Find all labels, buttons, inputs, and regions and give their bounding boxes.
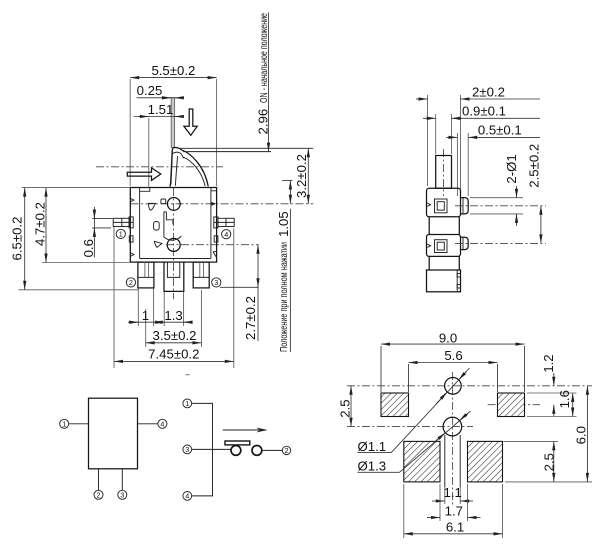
svg-text:1.51: 1.51 <box>148 102 174 117</box>
svg-text:2: 2 <box>97 490 101 499</box>
svg-text:7.45±0.2: 7.45±0.2 <box>148 347 199 362</box>
svg-text:2.5: 2.5 <box>541 453 556 471</box>
svg-text:4: 4 <box>185 492 189 501</box>
svg-text:1: 1 <box>185 399 189 408</box>
svg-text:1.7: 1.7 <box>445 503 463 518</box>
svg-text:2±0.2: 2±0.2 <box>472 84 505 99</box>
svg-text:1.2: 1.2 <box>541 354 556 372</box>
svg-text:3.2±0.2: 3.2±0.2 <box>294 154 309 198</box>
svg-text:1: 1 <box>142 308 149 323</box>
svg-text:1.05: 1.05 <box>276 211 291 237</box>
svg-text:4.7±0.2: 4.7±0.2 <box>33 202 48 246</box>
svg-text:0.5±0.1: 0.5±0.1 <box>478 123 522 138</box>
svg-text:Ø1.3: Ø1.3 <box>358 459 387 474</box>
svg-text:3: 3 <box>214 278 218 287</box>
svg-text:2: 2 <box>129 278 133 287</box>
svg-text:2.5±0.2: 2.5±0.2 <box>527 144 542 188</box>
svg-text:2.96: 2.96 <box>255 109 270 135</box>
svg-text:1: 1 <box>119 230 123 239</box>
svg-text:Положение при полном нажатии: Положение при полном нажатии <box>278 242 290 352</box>
svg-text:5.5±0.2: 5.5±0.2 <box>151 63 195 78</box>
svg-text:6.1: 6.1 <box>446 519 464 534</box>
svg-text:0.25: 0.25 <box>137 83 163 98</box>
svg-text:0.9±0.1: 0.9±0.1 <box>462 104 506 119</box>
svg-text:1: 1 <box>62 419 66 428</box>
svg-text:0.6: 0.6 <box>81 239 96 257</box>
svg-text:5.6: 5.6 <box>444 348 462 363</box>
svg-text:3: 3 <box>120 490 124 499</box>
svg-text:4: 4 <box>224 230 228 239</box>
svg-text:6.0: 6.0 <box>574 426 589 444</box>
svg-text:2-Ø1: 2-Ø1 <box>504 154 519 183</box>
svg-text:Ø1.1: Ø1.1 <box>358 439 387 454</box>
svg-text:4: 4 <box>160 419 164 428</box>
svg-text:1.1: 1.1 <box>444 485 462 500</box>
svg-text:3: 3 <box>185 445 189 454</box>
svg-text:2: 2 <box>285 446 289 455</box>
svg-text:1.6: 1.6 <box>557 390 572 408</box>
svg-text:2.5: 2.5 <box>338 399 353 417</box>
svg-text:2.7±0.2: 2.7±0.2 <box>243 296 258 340</box>
svg-text:6.5±0.2: 6.5±0.2 <box>10 217 25 261</box>
svg-text:ON - начальное положение: ON - начальное положение <box>258 13 270 103</box>
svg-text:3.5±0.2: 3.5±0.2 <box>153 328 197 343</box>
svg-text:9.0: 9.0 <box>439 331 457 346</box>
svg-text:1.3: 1.3 <box>164 308 182 323</box>
